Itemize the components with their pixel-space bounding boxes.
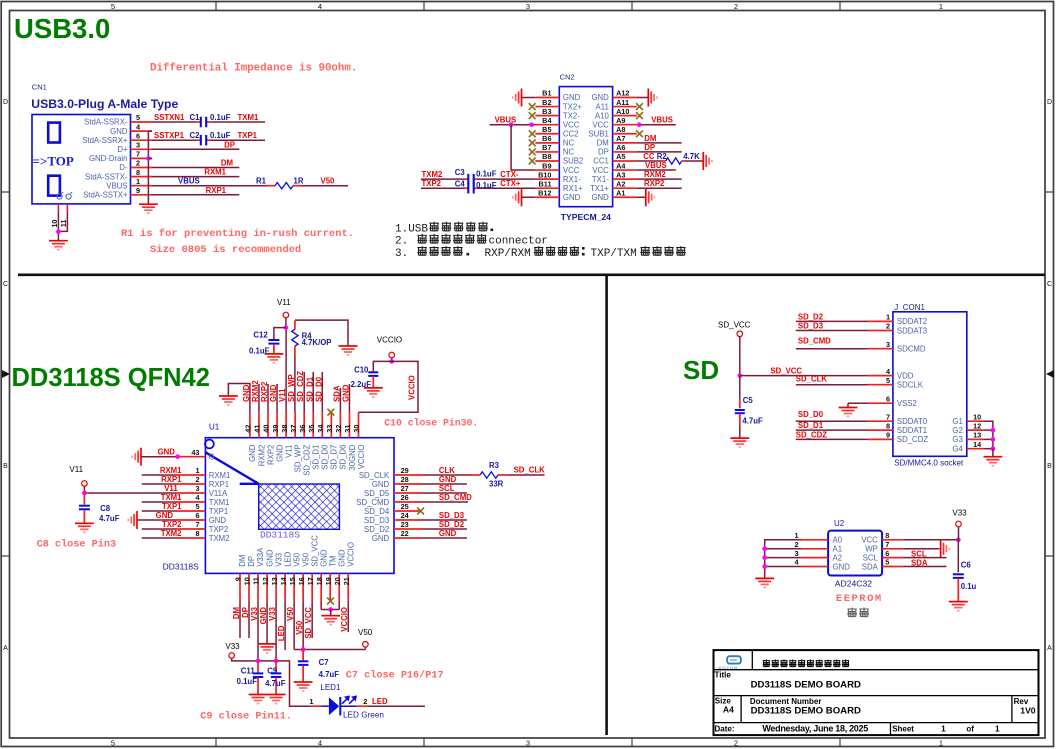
svg-text:B5: B5 <box>542 125 551 134</box>
junction V11 C8 <box>82 491 87 496</box>
svg-text:GND: GND <box>341 384 350 402</box>
net label CC and resistor R2 <box>637 160 662 162</box>
U1 pin 42 GND <box>249 412 251 438</box>
svg-text:DD3118S: DD3118S <box>260 530 300 541</box>
svg-text:DM: DM <box>597 139 609 148</box>
no-connect X B5 <box>529 130 536 137</box>
svg-text:CC: CC <box>643 152 655 161</box>
svg-text:SDA: SDA <box>911 558 928 567</box>
svg-text:30GND: 30GND <box>348 444 357 470</box>
svg-text:41: 41 <box>253 425 262 433</box>
wire net RXM2 pin 41 <box>258 384 260 412</box>
svg-text:connector: connector <box>489 236 548 248</box>
CN1 pin 6 StdA-SSRX+ <box>131 139 153 141</box>
svg-text:26: 26 <box>401 493 409 502</box>
svg-text:RXM1: RXM1 <box>160 466 182 475</box>
svg-text:SSTXN1: SSTXN1 <box>154 113 185 122</box>
svg-text:38: 38 <box>280 425 289 433</box>
svg-text:4.7uF: 4.7uF <box>99 514 120 523</box>
CN1 USB icon top <box>48 123 60 143</box>
wire VBUS A4 <box>637 169 676 171</box>
svg-text:SDCMD: SDCMD <box>897 345 926 354</box>
svg-text:B1: B1 <box>542 89 551 98</box>
junction G2 <box>991 428 996 433</box>
wire VBUS to B9 <box>511 125 535 170</box>
svg-text:C9: C9 <box>267 667 278 676</box>
svg-text:27: 27 <box>401 484 409 493</box>
wire VCC to V33 <box>904 539 958 541</box>
svg-text:A: A <box>1047 645 1052 652</box>
svg-text:SDDAT0: SDDAT0 <box>897 417 928 426</box>
svg-text:V11: V11 <box>277 298 291 307</box>
capacitor C9 <box>275 661 277 673</box>
svg-text:GND-Drain: GND-Drain <box>89 154 128 163</box>
svg-text:VCC: VCC <box>563 120 580 129</box>
svg-text:12: 12 <box>973 421 981 430</box>
svg-text:16: 16 <box>297 577 306 585</box>
svg-text:RXM1: RXM1 <box>209 471 231 480</box>
wire GND pin22 <box>422 537 467 539</box>
svg-text:SD_D5: SD_D5 <box>364 489 390 498</box>
svg-text:4.7uF: 4.7uF <box>742 416 763 425</box>
svg-text:V11: V11 <box>69 465 83 474</box>
svg-text:R3: R3 <box>489 461 500 470</box>
U1 pin-1 circle <box>205 440 214 449</box>
U1 pin 22 GND <box>394 537 422 539</box>
ground CN2 B1 <box>521 89 523 107</box>
wire DM / net DM right <box>637 142 682 144</box>
svg-text:1: 1 <box>309 697 313 706</box>
svg-text:CTX-: CTX- <box>500 170 519 179</box>
wire VCCIO <box>391 358 393 362</box>
svg-text:2: 2 <box>886 322 890 331</box>
U1 pin 3 V11A <box>178 492 206 494</box>
wire CN1 pins 10-11 to ground <box>57 211 59 240</box>
junction V11 C12 <box>284 325 289 330</box>
svg-text:5: 5 <box>111 2 115 11</box>
CN2 pin A9 VCC <box>613 124 637 126</box>
junction A9 <box>637 122 642 127</box>
svg-text:6: 6 <box>136 131 140 140</box>
svg-text:C9 close Pin11.: C9 close Pin11. <box>200 711 292 723</box>
ground pin6 <box>136 511 138 529</box>
svg-text:A2: A2 <box>616 179 625 188</box>
svg-text:SD_CDZ: SD_CDZ <box>796 430 827 439</box>
U1 pin 36 SD_CDZ <box>303 412 305 438</box>
wire LED pin14 <box>284 601 286 650</box>
svg-text:B9: B9 <box>542 161 551 170</box>
CN1 shield glyphs <box>57 192 72 199</box>
CN2 pin B8 SUB2 <box>535 160 559 162</box>
svg-text:TM: TM <box>328 556 337 567</box>
svg-text:3: 3 <box>136 141 140 150</box>
svg-text:V50: V50 <box>292 552 301 567</box>
svg-text:43: 43 <box>191 448 199 457</box>
ground R2 <box>702 152 704 170</box>
CN1 pin 1 VBUS <box>131 185 153 187</box>
svg-text:2: 2 <box>136 159 140 168</box>
border centre arrows <box>2 370 10 378</box>
U1 pin 39 GND <box>276 412 278 438</box>
svg-text:DP: DP <box>598 148 609 157</box>
svg-text:VCC: VCC <box>592 166 609 175</box>
junction pin7 GND-Drain <box>146 156 151 161</box>
svg-text:LED: LED <box>372 697 388 706</box>
svg-text:5: 5 <box>885 558 889 567</box>
svg-text:SDA: SDA <box>862 562 879 571</box>
svg-text:GND: GND <box>248 444 257 462</box>
ground C8 <box>75 522 94 524</box>
svg-text:SD_D3: SD_D3 <box>798 322 824 331</box>
CN2 pin B4 VCC <box>535 124 559 126</box>
svg-text:1: 1 <box>939 2 943 11</box>
svg-text:VBUS: VBUS <box>178 177 200 186</box>
wire ground bus right <box>984 421 993 449</box>
U1 pin 25 SD_D4 <box>394 510 422 512</box>
no-connect X A8 <box>636 130 643 137</box>
svg-text:22: 22 <box>401 529 409 538</box>
svg-text:1: 1 <box>886 313 890 322</box>
ground J_CON1 shell <box>992 449 994 457</box>
svg-text:DP: DP <box>247 556 256 567</box>
svg-text:TXM2: TXM2 <box>209 534 230 543</box>
capacitor C5 <box>735 409 745 411</box>
resistor R4 (SD_WP pulldown) <box>294 321 296 330</box>
J_CON1 pin 12 G2 <box>967 429 984 431</box>
wire RXM1 <box>142 474 178 476</box>
svg-text:D: D <box>3 99 8 106</box>
svg-text:14: 14 <box>279 576 288 585</box>
svg-text:SD_D1: SD_D1 <box>798 421 824 430</box>
U2 pin 3 A2 <box>802 557 829 559</box>
svg-text:SD_VCC: SD_VCC <box>310 535 319 567</box>
U2 pin 4 GND <box>802 566 829 568</box>
J_CON1 pin 5 SDCLK <box>868 384 893 386</box>
resistor R1 <box>266 185 275 187</box>
CN1 pin 9 StdA-SSTX+ <box>131 194 153 196</box>
svg-text:GND: GND <box>563 93 581 102</box>
svg-text:B12: B12 <box>538 188 551 197</box>
wire VSS2 to ground <box>848 402 868 404</box>
svg-text:4: 4 <box>318 739 322 748</box>
svg-text:SD_D7: SD_D7 <box>330 445 339 470</box>
ground pin12 <box>258 643 277 645</box>
svg-text:1V0: 1V0 <box>1020 706 1036 716</box>
svg-text:TXM1: TXM1 <box>209 498 230 507</box>
svg-text:2: 2 <box>794 540 798 549</box>
wire SD_VCC rail <box>740 375 868 377</box>
junction VBUS pin end <box>529 122 534 127</box>
ground CN2 A12 <box>647 89 649 107</box>
svg-text:Differential Impedance is 90oh: Differential Impedance is 90ohm. <box>150 63 357 75</box>
svg-text:C: C <box>3 281 8 288</box>
svg-text:A1: A1 <box>833 545 843 554</box>
wire SD_CLK <box>796 384 868 386</box>
J_CON1 pin 8 SDDAT1 <box>868 429 893 431</box>
svg-text:Document Number: Document Number <box>750 697 822 706</box>
svg-text:24: 24 <box>401 511 410 520</box>
svg-text:A2: A2 <box>833 553 843 562</box>
U1 pin 37 SD_WP <box>294 412 296 438</box>
svg-text:34: 34 <box>316 424 325 433</box>
no-connect X B2 <box>529 103 536 110</box>
CN2 pin A3 TX1- <box>613 178 637 180</box>
U1 pin 31 30GND <box>348 412 350 438</box>
svg-text:SD_D1: SD_D1 <box>305 376 314 402</box>
wire R1 to V50 <box>302 185 348 187</box>
wire V50 rail <box>294 649 365 651</box>
svg-text:B4: B4 <box>542 116 552 125</box>
svg-text:30: 30 <box>352 425 361 433</box>
svg-text:A10: A10 <box>616 107 629 116</box>
IC U2 body <box>828 531 882 576</box>
svg-text:0.1u: 0.1u <box>961 582 977 591</box>
wire SDA pin32 <box>339 388 341 412</box>
section divider vertical <box>605 275 608 735</box>
svg-text:DM: DM <box>232 607 241 619</box>
svg-text:VCC: VCC <box>563 166 580 175</box>
capacitor C8 <box>83 493 85 505</box>
CN2 pin B6 NC <box>535 142 559 144</box>
svg-text:RXP1: RXP1 <box>161 475 182 484</box>
wire TXP2 row / net TXP2 <box>421 187 465 189</box>
wire A12 to ground <box>637 97 648 99</box>
svg-text:C7: C7 <box>319 658 329 667</box>
svg-text:12: 12 <box>261 577 270 585</box>
wire SD_D2 <box>796 320 868 322</box>
svg-text:StdA-SSRX+: StdA-SSRX+ <box>82 136 128 145</box>
CN2 pin B1 GND <box>535 97 559 99</box>
svg-text:DD3118S DEMO BOARD: DD3118S DEMO BOARD <box>751 679 861 690</box>
svg-text:GND: GND <box>591 93 609 102</box>
svg-text:SD/MMC4.0 socket: SD/MMC4.0 socket <box>894 459 964 468</box>
J_CON1 pin 4 VDD <box>868 375 893 377</box>
svg-text:Title: Title <box>715 671 732 680</box>
wire DP pin10 <box>248 601 250 638</box>
svg-text:SD_D0: SD_D0 <box>798 410 824 419</box>
svg-text:V50: V50 <box>358 628 373 637</box>
svg-text:SD_CMD: SD_CMD <box>439 493 472 502</box>
svg-text:15: 15 <box>288 577 297 585</box>
wire CLK to R3 <box>422 474 472 476</box>
capacitor C10 <box>368 371 378 373</box>
J_CON1 pin 1 SDDAT2 <box>868 320 893 322</box>
svg-text:SD: SD <box>683 355 719 385</box>
wire SD_D3 <box>796 330 868 332</box>
svg-text:1R: 1R <box>294 177 304 186</box>
svg-text:TX1+: TX1+ <box>590 184 609 193</box>
svg-text:4.7K/OP: 4.7K/OP <box>302 338 332 347</box>
wire SCL pin27 <box>422 492 467 494</box>
svg-text:SUB1: SUB1 <box>588 129 608 138</box>
CN2 pin A1 GND <box>613 196 637 198</box>
wire GND pin28 <box>422 483 467 485</box>
svg-text:GND: GND <box>265 549 274 567</box>
svg-text:=>TOP: =>TOP <box>33 154 74 169</box>
svg-text:D+: D+ <box>117 145 128 154</box>
wire SDA <box>904 566 947 568</box>
U2 pin 8 VCC <box>882 539 904 541</box>
svg-text:B11: B11 <box>539 179 552 188</box>
svg-text:V33: V33 <box>225 642 240 651</box>
wire net SD_D1 pin 35 <box>312 372 314 412</box>
svg-text:Sheet: Sheet <box>892 724 914 733</box>
svg-text:VCCIO: VCCIO <box>357 445 366 470</box>
junction C11 <box>256 659 261 664</box>
U2 pin 6 SCL <box>882 557 904 559</box>
U1 pin 16 V50 <box>302 573 304 601</box>
svg-text:VBUS: VBUS <box>651 116 673 125</box>
ground pin42 <box>219 395 238 397</box>
svg-text:GND: GND <box>591 193 609 202</box>
svg-text:39: 39 <box>271 425 280 433</box>
CN2 pin B7 NC <box>535 151 559 153</box>
svg-text:7: 7 <box>886 412 890 421</box>
svg-text:C10: C10 <box>354 365 369 374</box>
U2 pin 5 SDA <box>882 566 904 568</box>
CN2 pin A7 DM <box>613 142 637 144</box>
svg-text:R1 is for preventing in-rush c: R1 is for preventing in-rush current. <box>121 228 354 240</box>
svg-text:SDDAT2: SDDAT2 <box>897 317 927 326</box>
wire GND pin31 <box>348 384 350 412</box>
svg-text:C8 close Pin3: C8 close Pin3 <box>37 539 116 551</box>
capacitor C1 <box>200 117 202 128</box>
svg-text:SD_CMD: SD_CMD <box>798 336 831 345</box>
svg-text:G: G <box>209 453 215 462</box>
CN2 pin B9 VCC <box>535 169 559 171</box>
junction VCCIO <box>389 359 394 364</box>
junction U2 pin4 <box>762 564 767 569</box>
svg-text:V11A: V11A <box>209 489 228 498</box>
ground C11 <box>249 694 268 696</box>
ground U2 address <box>755 577 774 579</box>
U1 pin 14 LED <box>284 573 286 601</box>
CN1 pin 5 StdA-SSRX- <box>131 121 153 123</box>
svg-text:1: 1 <box>136 177 140 186</box>
wire GND 18-20 bus <box>321 609 339 611</box>
wire V33 pin11 <box>257 601 259 661</box>
svg-text:SD_D3: SD_D3 <box>439 511 465 520</box>
svg-text:SD_D3: SD_D3 <box>364 516 389 525</box>
no-connect X pin25 <box>417 508 424 515</box>
svg-text:CC2: CC2 <box>563 129 579 138</box>
svg-text:4: 4 <box>318 2 322 11</box>
U1 pin 38 V11 <box>285 412 287 438</box>
svg-text:SD_D4: SD_D4 <box>364 507 390 516</box>
svg-text:TXM2: TXM2 <box>422 170 443 179</box>
CN2 pin B5 CC2 <box>535 133 559 135</box>
svg-text:31: 31 <box>343 425 352 433</box>
svg-text:DP: DP <box>224 140 235 149</box>
svg-text:10: 10 <box>973 412 981 421</box>
svg-text:9: 9 <box>234 577 243 581</box>
U1 pin 43 G <box>178 456 206 458</box>
svg-text:VCCIO: VCCIO <box>377 336 402 345</box>
svg-text:DD3118S QFN42: DD3118S QFN42 <box>12 364 210 392</box>
U1 pin 23 SD_D2 <box>394 528 422 530</box>
svg-text:DM: DM <box>644 134 656 143</box>
svg-text:TXM2: TXM2 <box>161 529 182 538</box>
svg-text:GND: GND <box>319 549 328 567</box>
ground pin43 <box>140 448 142 466</box>
svg-text:25: 25 <box>401 502 409 511</box>
svg-text:V50: V50 <box>301 552 310 567</box>
U1 pin 34 SD_D0 <box>321 412 323 438</box>
ground CN1 GND-Drain <box>139 203 158 205</box>
svg-text:A5: A5 <box>616 152 625 161</box>
svg-text:TXM1: TXM1 <box>161 493 182 502</box>
svg-text:C11: C11 <box>241 667 256 676</box>
svg-text:DD3118S: DD3118S <box>163 562 200 572</box>
junction C9 <box>274 659 279 664</box>
svg-text:SUB2: SUB2 <box>563 157 583 166</box>
ground pins18-20 <box>330 610 332 616</box>
svg-text:7: 7 <box>885 540 889 549</box>
wire SSTXP1 row / net SSTXP1 <box>152 139 197 141</box>
svg-text:VCCIO: VCCIO <box>346 542 355 567</box>
U1 pin 1 RXM1 <box>178 474 206 476</box>
junction G4 <box>991 446 996 451</box>
no-connect X B6 <box>529 139 536 146</box>
wire SD_D2 pin23 <box>422 528 467 530</box>
U1 pin 8 TXM2 <box>178 537 206 539</box>
CN2 pin B3 TX2- <box>535 115 559 117</box>
svg-text:CLK: CLK <box>439 466 455 475</box>
svg-text:DD3118S DEMO BOARD: DD3118S DEMO BOARD <box>751 706 861 717</box>
svg-text:V33: V33 <box>250 606 259 621</box>
svg-text:2.: 2. <box>395 236 408 248</box>
capacitor C7 <box>302 650 304 661</box>
no-connect X B3 <box>529 112 536 119</box>
U1 pin 7 TXP2 <box>178 528 206 530</box>
svg-text:29: 29 <box>401 466 409 475</box>
wire SD_VCC to C5 <box>739 376 741 399</box>
connector CN1 body <box>32 115 131 204</box>
svg-text:33R: 33R <box>489 480 504 489</box>
wire SD_CMD <box>796 348 868 350</box>
wire DP / net DP right <box>637 151 682 153</box>
svg-text:G4: G4 <box>952 445 963 454</box>
svg-text:CTX+: CTX+ <box>500 179 521 188</box>
junction U2 pin3 <box>762 555 767 560</box>
svg-text:23: 23 <box>401 520 409 529</box>
svg-text:0.1uF: 0.1uF <box>476 170 497 179</box>
svg-text:GND: GND <box>372 534 390 543</box>
CN1 pin 8 StdA-SSTX- <box>131 176 153 178</box>
svg-text:GND: GND <box>156 511 174 520</box>
svg-text:A1: A1 <box>616 188 625 197</box>
U1 pin 33 SD_D7 <box>330 412 332 438</box>
no-connect X B8 <box>529 158 536 165</box>
svg-text:D: D <box>1047 99 1052 106</box>
svg-text:RXP2: RXP2 <box>260 381 269 402</box>
wire DM pin9 <box>239 601 241 638</box>
svg-text:D-: D- <box>119 163 128 172</box>
CN1 pin 10 <box>57 204 59 211</box>
svg-text:21: 21 <box>342 577 351 585</box>
svg-text:VBUS: VBUS <box>106 181 127 190</box>
svg-text:9: 9 <box>136 186 140 195</box>
svg-text:B3: B3 <box>542 107 551 116</box>
svg-text:AD24C32: AD24C32 <box>835 579 872 589</box>
CN2 pin A5 CC1 <box>613 160 637 162</box>
ground VSS2 <box>847 403 849 407</box>
wire SD_CDZ <box>796 438 868 440</box>
svg-text:VCC: VCC <box>592 120 609 129</box>
CN2 pin A11 A11 <box>613 106 637 108</box>
svg-text:SD_WP: SD_WP <box>293 445 302 473</box>
svg-text:USB3.0: USB3.0 <box>14 13 110 44</box>
